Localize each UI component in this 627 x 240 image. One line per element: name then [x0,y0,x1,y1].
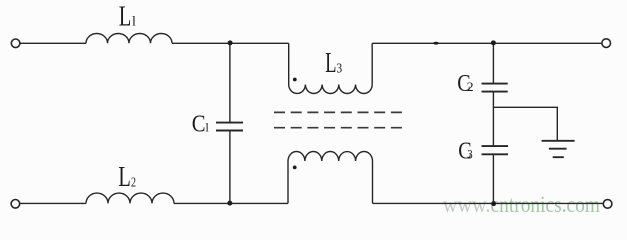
wire node C down to C2 [492,43,494,84]
svg-text:Cl: Cl [192,112,210,138]
inductor L1 [86,33,172,43]
inductor L2 [86,193,174,203]
terminal top-right [602,39,611,48]
terminal bottom-right [603,200,612,209]
wire top-left to L1 [20,42,86,44]
bottom choke left leg [287,161,289,203]
polarity dot bottom winding [293,166,297,170]
capacitor C2 [482,84,508,92]
node A junction dot [228,40,233,45]
transformer core (dashed) [274,112,402,127]
svg-text:L3: L3 [325,47,342,79]
node B junction dot [227,201,232,206]
wire C3 down to node D [492,154,494,203]
svg-text:C3: C3 [458,138,472,164]
wire node A down to C1 [229,43,231,123]
svg-text:C2: C2 [457,71,473,97]
svg-text:Ll: Ll [119,1,136,33]
transformer L3 bottom winding [288,151,373,161]
wire bottom-left to L2 [20,202,86,204]
wire top winding to terminal top-right [372,42,602,44]
wire C2 to C3 [492,92,494,147]
capacitor C1 [216,123,243,131]
ground [542,141,575,157]
transformer L3 top winding [289,85,373,94]
polarity dot top winding [293,78,297,82]
small blob on top rail [433,42,439,45]
svg-text:L2: L2 [118,161,136,193]
capacitor C3 [482,146,509,154]
wire C1 down to node B [229,131,231,204]
wire L2 to node B [174,202,288,204]
top winding right leg [371,43,373,84]
terminal bottom-left [11,200,20,209]
svg-text:www.cntronics.com: www.cntronics.com [443,192,600,217]
wire L1 to node A [172,42,289,44]
node D junction dot [491,201,496,206]
node C junction dot [491,40,496,45]
wire node A to top choke winding, left leg [288,43,290,84]
wire bottom winding to terminal bottom-right [373,202,604,204]
wire branch to ground [493,107,557,141]
bottom winding right leg [372,161,374,203]
terminal top-left [11,39,20,48]
